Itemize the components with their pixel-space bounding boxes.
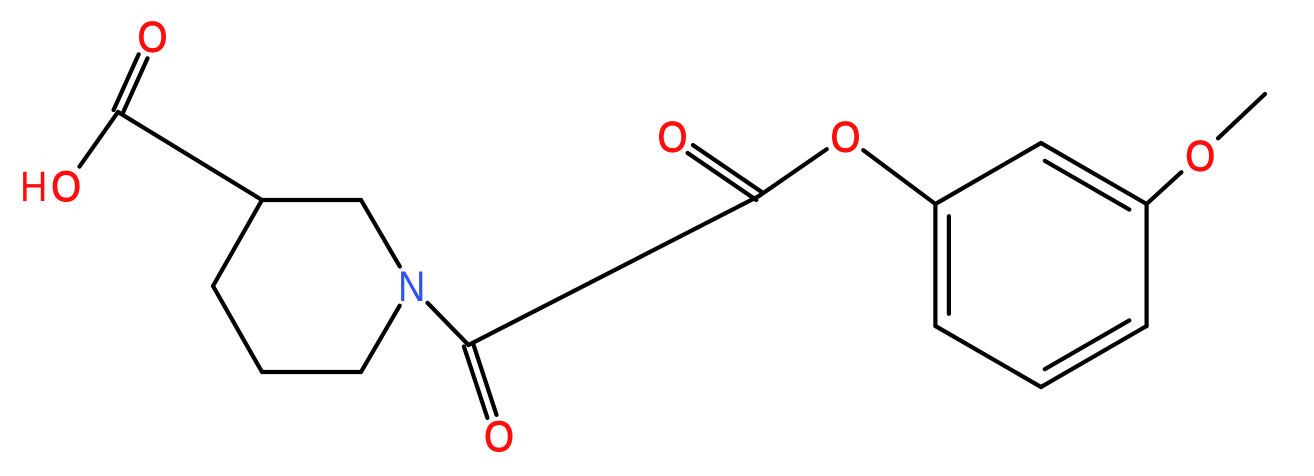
bond aryl C3 to O7 <box>1147 172 1182 204</box>
svg-text:O: O <box>51 163 81 210</box>
amide C=O double bond to O4 (line 2) <box>473 344 496 415</box>
carboxyl C=O double bond to O1 (line 2) <box>114 54 139 110</box>
carboxyl C=O double bond to O1 (line 1) <box>122 58 147 114</box>
benzene edge R2-B <box>1041 326 1147 387</box>
svg-text:O: O <box>138 13 168 60</box>
benzene edge apex-C3 <box>1041 143 1147 204</box>
svg-text:O: O <box>1185 132 1215 179</box>
benzene edge L2-C1 <box>933 204 937 326</box>
benzene inner double line apex-C3 <box>1045 161 1130 210</box>
benzene edge C1-apex <box>935 143 1041 204</box>
piperidine edge C3-C2 <box>262 198 361 202</box>
benzene inner double line R2-B <box>1045 320 1130 369</box>
bond O6 to aryl C1 <box>863 150 935 204</box>
ester C-O bond to O6 <box>759 149 827 196</box>
svg-text:O: O <box>658 113 688 160</box>
benzene inner double line L2-C1 <box>947 216 951 314</box>
svg-text:O: O <box>484 413 514 460</box>
svg-text:H: H <box>20 163 47 210</box>
ester C=O double bond to O5 (line 2) <box>688 153 757 200</box>
svg-text:O: O <box>831 113 861 160</box>
piperidine edge C6-C5 <box>262 370 361 374</box>
bond acid C to piperidine C3 <box>118 112 262 200</box>
piperidine edge C5-C4 <box>213 286 262 372</box>
benzene edge B-L2 <box>935 326 1041 387</box>
bond amide C to ester C <box>469 196 760 345</box>
piperidine edge C4-C3 <box>213 200 262 286</box>
methyl bond from O7 <box>1218 94 1265 138</box>
svg-text:N: N <box>398 263 425 310</box>
ester C=O double bond to O5 (line 1) <box>693 145 762 192</box>
benzene edge C3-R2 <box>1144 204 1148 326</box>
piperidine edge N-C6 <box>361 306 400 372</box>
amide bond N-C <box>428 303 469 345</box>
amide C=O double bond to O4 (line 1) <box>464 347 488 418</box>
piperidine edge C2-N <box>361 200 400 267</box>
C-OH bond to HO <box>80 112 119 167</box>
